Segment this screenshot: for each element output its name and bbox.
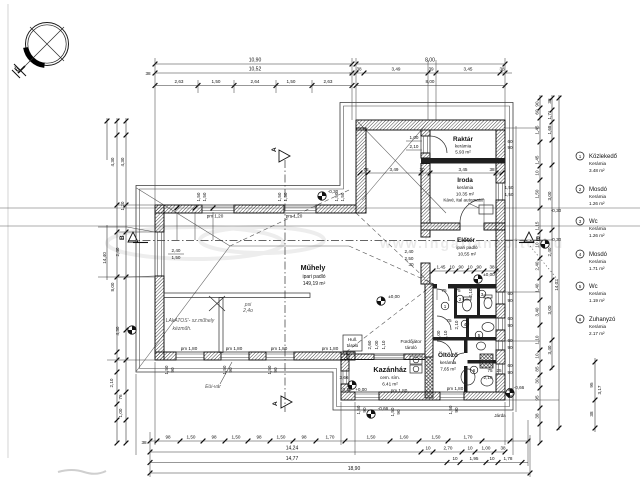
room number 3 wc [478,290,486,298]
svg-text:1,50: 1,50 [283,192,288,201]
svg-text:38: 38 [489,167,495,172]
svg-text:7,65 m²: 7,65 m² [440,367,456,372]
door arc raktar [430,136,447,153]
door arc room2 [437,316,451,330]
svg-text:1,50: 1,50 [267,365,272,374]
door arc bath corridor [437,289,449,301]
svg-text:85: 85 [535,366,540,372]
svg-text:kerámia: kerámia [440,360,457,365]
svg-text:2: 2 [459,297,462,302]
svg-text:1,50: 1,50 [196,192,201,201]
top dimension group left [155,63,352,65]
svg-text:75: 75 [487,368,493,373]
svg-text:8,00: 8,00 [425,58,435,64]
section marker A bottom [272,396,292,408]
roof eaves outline outer [136,103,513,411]
svg-text:pm 1,20: pm 1,20 [207,214,224,219]
svg-text:90: 90 [273,367,278,373]
svg-text:1,50: 1,50 [212,79,221,84]
svg-text:1: 1 [444,304,447,309]
svg-text:0,16: 0,16 [343,387,352,392]
svg-text:90: 90 [228,367,233,373]
legend item 1 Közlekedő [576,152,618,173]
window bath right 1 [496,292,505,304]
svg-text:3,45: 3,45 [464,67,473,72]
svg-text:98: 98 [256,435,262,440]
svg-text:2,40: 2,40 [535,261,540,270]
section marker A top [271,147,290,162]
svg-text:2,10: 2,10 [468,288,473,297]
wall left wing bottom segment 3 [249,352,266,360]
svg-text:Kazánház: Kazánház [373,365,407,374]
svg-text:38: 38 [489,265,495,270]
bottom extension lines [154,362,156,445]
level marker -0,30 right [541,240,549,248]
svg-text:B: B [119,235,126,240]
svg-text:3,49: 3,49 [390,167,399,172]
svg-text:Fürdőjátor: Fürdőjátor [401,339,422,344]
svg-text:1,50: 1,50 [356,405,361,414]
svg-text:2,40: 2,40 [547,247,552,256]
svg-text:kézműh.: kézműh. [173,326,192,332]
section line B-B [128,240,548,242]
svg-text:98: 98 [165,435,171,440]
chimney shaft crosshatch [425,357,433,398]
svg-text:75: 75 [441,288,447,293]
door arc wc5 [453,353,464,364]
svg-text:pm 1,80: pm 1,80 [322,346,339,351]
svg-text:2,10: 2,10 [443,330,448,339]
wall eloter left stub [421,230,430,237]
svg-text:+0,00: +0,00 [355,387,367,392]
wall bath row divider 1 [454,315,496,319]
svg-text:8,00: 8,00 [110,282,115,291]
left 14,40 bracket [98,226,127,228]
wall bath left [425,284,433,357]
svg-text:90: 90 [454,407,459,413]
wall eloter left lower [421,263,430,284]
wall kazanhaz top seg1 [341,354,374,360]
svg-text:90: 90 [507,370,513,375]
svg-text:3,00: 3,00 [547,305,552,314]
legend item 6 Zuhanyzó [576,315,616,336]
svg-text:Mosdó: Mosdó [589,187,608,193]
wall iroda bottom left part [421,223,460,230]
svg-text:±0,00: ±0,00 [388,294,400,299]
svg-text:1,50: 1,50 [505,192,514,197]
svg-text:14,24: 14,24 [286,446,299,452]
roof hip left bottom [137,246,231,371]
svg-text:5: 5 [579,284,582,289]
wall kazanhaz left lower [341,384,349,392]
svg-text:3,49: 3,49 [392,67,401,72]
svg-text:1,50: 1,50 [164,365,169,374]
svg-text:1,20: 1,20 [120,201,125,210]
level marker left wall [128,326,136,334]
toilet room2 [463,299,472,311]
svg-text:3,45: 3,45 [459,167,468,172]
window left wing top 2 [284,205,316,213]
right dimension chain lines [539,95,541,443]
svg-text:pm 1,80: pm 1,80 [181,346,198,351]
annex right wall [219,298,223,353]
leader dotted right of B marker [530,246,558,280]
svg-text:5: 5 [478,333,481,338]
watermark logo oval [107,227,283,259]
svg-text:60: 60 [507,338,513,343]
svg-text:ipari padló: ipari padló [456,245,478,250]
svg-text:2,10: 2,10 [484,375,493,380]
svg-text:1,10: 1,10 [381,340,386,349]
door arc iroda [460,199,484,223]
svg-text:25: 25 [496,368,502,373]
svg-text:10: 10 [425,446,431,451]
level marker -0,66 right bottom [506,389,514,397]
svg-text:149,19 m²: 149,19 m² [303,281,326,287]
wall left wing top segment 2 [234,205,284,213]
door jambs eloter [421,236,430,238]
svg-text:4: 4 [464,322,467,327]
svg-text:pm 1,80: pm 1,80 [447,386,464,391]
roof valley dashed to bath corner [349,246,434,284]
svg-text:1.26 m²: 1.26 m² [589,201,605,206]
door opening kazanhaz south [355,392,379,400]
svg-text:cem. sím.: cem. sím. [380,375,400,380]
svg-text:1,78: 1,78 [504,456,513,461]
automat machine rect [479,205,493,214]
boiler units [410,356,422,364]
wall left wing top segment 1 [155,205,202,213]
svg-text:2,63: 2,63 [175,79,184,84]
hull tarolo box [343,335,362,351]
svg-text:4,30: 4,30 [110,157,115,166]
wall step corner [341,352,355,360]
svg-text:5.93 m²: 5.93 m² [455,150,471,155]
svg-text:90: 90 [535,101,540,107]
section marker B left [119,232,148,243]
svg-text:3,40: 3,40 [535,307,540,316]
svg-text:Raktár: Raktár [453,136,473,143]
svg-text:3,00: 3,00 [547,191,552,200]
svg-text:2.17 m²: 2.17 m² [589,331,605,336]
svg-text:90: 90 [362,407,367,413]
legend item 3 Wc [576,217,607,238]
svg-text:30: 30 [408,262,414,267]
top dimension group right [356,63,505,65]
svg-text:38: 38 [141,440,147,445]
annex cross mark [209,296,225,311]
window bath right 4 [496,364,505,374]
svg-text:1,50: 1,50 [535,189,540,198]
window left wing bottom 3 [266,352,294,360]
svg-text:LAkATOS’- sz.műhely: LAkATOS’- sz.műhely [166,318,215,324]
wall bath row divider 2 [433,337,496,341]
svg-text:kerámia: kerámia [457,185,474,190]
roof diagonal block X2 [362,122,428,200]
svg-text:Wc: Wc [589,219,598,225]
svg-text:60: 60 [507,387,513,392]
svg-text:1,45: 1,45 [535,155,540,164]
svg-text:1,50: 1,50 [432,435,441,440]
svg-text:Kerámia: Kerámia [589,194,607,199]
north compass [12,23,69,79]
svg-text:10: 10 [535,353,540,359]
svg-text:1,10: 1,10 [535,335,540,344]
svg-text:3,17: 3,17 [597,385,602,394]
wall block right at iroda [496,200,505,230]
svg-text:8,00: 8,00 [426,79,435,84]
svg-text:1,50: 1,50 [287,79,296,84]
svg-text:90: 90 [396,409,401,415]
svg-text:Kerámia: Kerámia [589,161,607,166]
svg-text:1,00: 1,00 [410,135,419,140]
wall raktar left lower stub [421,153,430,158]
svg-text:±0,00: ±0,00 [483,272,495,277]
svg-text:Műhely: Műhely [301,263,326,272]
svg-text:10: 10 [489,456,495,461]
right chain at legend bottom [594,358,596,432]
room number 6 zuhanyzo [470,366,478,374]
svg-text:2,40: 2,40 [115,247,120,256]
room number 4 mosdo [461,320,469,328]
bottom dimension row 4 [150,472,530,474]
svg-text:95: 95 [589,382,594,388]
svg-text:10: 10 [535,242,540,248]
window bath right 3 [496,341,505,350]
svg-text:2,40: 2,40 [172,248,181,253]
svg-text:1,50: 1,50 [232,435,241,440]
window left wing bottom 2 [221,352,249,360]
wall left wing bottom segment 2 [204,352,221,360]
svg-text:Öltöző: Öltöző [438,350,458,359]
svg-text:2,10: 2,10 [410,144,419,149]
window iroda right wall [496,183,505,200]
svg-text:1,50: 1,50 [367,435,376,440]
svg-text:-0,66: -0,66 [514,385,525,390]
svg-text:1,15: 1,15 [535,221,540,230]
door opening raktar [421,136,430,153]
svg-text:1,70: 1,70 [464,435,473,440]
svg-text:10: 10 [535,170,540,176]
svg-text:1,50: 1,50 [340,192,345,201]
svg-text:98: 98 [211,435,217,440]
wall divider raktar iroda [421,158,505,164]
radiator shower [480,354,493,368]
room number 1 kozlekedo [441,302,449,310]
svg-text:A: A [272,401,279,406]
svg-text:pm 1,80: pm 1,80 [226,346,243,351]
svg-text:2,4o: 2,4o [242,308,253,314]
svg-text:1,40: 1,40 [535,283,540,292]
svg-text:Kávé, ital automata: Kávé, ital automata [443,198,483,203]
svg-text:38: 38 [145,71,151,76]
svg-text:78: 78 [363,167,369,172]
shower tray [461,369,475,385]
roof valley muhely right [356,213,430,283]
svg-text:Iroda: Iroda [457,177,473,184]
svg-text:-0,66: -0,66 [378,406,389,411]
level marker -0,30 muhely top [318,192,326,200]
svg-text:14,77: 14,77 [286,456,299,462]
svg-text:38: 38 [589,411,594,417]
wall right lower seg1 [496,304,505,318]
svg-text:Zuhanyzó: Zuhanyzó [589,317,616,323]
svg-text:39: 39 [428,67,434,72]
wall iroda left [421,164,430,224]
section line A-A [284,160,286,412]
svg-text:14,40: 14,40 [102,252,107,264]
level marker +-0,00 eloter [474,275,482,283]
wall left wing left upper [155,205,164,232]
svg-text:38: 38 [356,67,362,72]
svg-text:kerámia: kerámia [455,144,472,149]
svg-text:tároló: tároló [347,343,359,348]
svg-text:3,66: 3,66 [340,375,349,380]
svg-text:1,00: 1,00 [118,408,123,417]
svg-text:10: 10 [467,446,473,451]
svg-text:1,50: 1,50 [505,185,514,190]
svg-text:1,45: 1,45 [437,265,446,270]
svg-text:1,50: 1,50 [334,192,339,201]
wall bottom lower seg1 [341,392,355,400]
svg-text:75: 75 [455,288,461,293]
wall iroda bottom right part [484,223,505,230]
svg-text:4,30: 4,30 [115,326,120,335]
svg-text:1,50: 1,50 [448,405,453,414]
svg-text:76: 76 [118,394,123,400]
bottom dimension row 2 [150,451,505,453]
wall kazanhaz top seg2 [404,354,425,360]
svg-text:1.71 m²: 1.71 m² [589,266,605,271]
room number 5 wc [475,331,483,339]
svg-text:98: 98 [301,435,307,440]
svg-text:pm 1,80: pm 1,80 [391,388,408,393]
wall oltozo right lower [464,366,468,392]
svg-text:1,70: 1,70 [326,435,335,440]
svg-text:90: 90 [507,145,513,150]
svg-text:38: 38 [535,413,540,419]
svg-text:60: 60 [507,139,513,144]
svg-text:1: 1 [579,154,582,159]
svg-text:A: A [271,147,278,152]
level marker -0,66 bottom [367,410,375,418]
svg-text:2,10: 2,10 [109,378,114,387]
svg-text:10,55 m²: 10,55 m² [458,252,477,257]
toilet room5 [477,342,486,350]
wall raktar left upper stub [421,130,430,136]
right extension lines [505,127,540,129]
window left wing bottom 1 [176,352,204,360]
svg-text:1,50: 1,50 [172,255,181,260]
window bath right 2 [496,318,505,330]
roof valley dashed to ridge [230,190,349,246]
wall bottom lower seg3 [464,392,505,400]
ridge guide line upper [0,207,640,209]
svg-text:4: 4 [579,252,582,257]
svg-text:1,95: 1,95 [470,456,479,461]
svg-text:1,00: 1,00 [482,446,491,451]
svg-text:1.19 m²: 1.19 m² [589,298,605,303]
faint pencil smudge bottom left [58,470,106,474]
wall eloter bath divider [448,284,496,289]
wall block left [356,128,366,213]
svg-text:Előtér: Előtér [457,237,476,244]
svg-text:Wc: Wc [589,284,598,290]
svg-text:1,45: 1,45 [535,125,540,134]
svg-text:90: 90 [170,367,175,373]
svg-text:-0,30: -0,30 [551,208,562,213]
svg-text:6.41 m²: 6.41 m² [382,382,398,387]
svg-text:90: 90 [507,394,513,399]
wall room2 room3 divider [477,289,480,316]
svg-text:tároló: tároló [405,345,417,350]
svg-text:6: 6 [579,317,582,322]
faint page edge line left [7,4,9,458]
left extension lines to wall [117,204,155,206]
svg-text:1,00: 1,00 [436,330,441,339]
annex workbench top double line [164,293,310,298]
bottom dimension row 1 [150,440,530,442]
wall room4 divider [466,319,469,338]
svg-text:Kerámia: Kerámia [589,291,607,296]
sink room4 [482,323,494,332]
svg-text:6: 6 [473,368,476,373]
svg-text:3: 3 [481,292,484,297]
svg-text:60: 60 [507,291,513,296]
wall kazanhaz left upper [341,354,349,371]
svg-text:90: 90 [458,265,464,270]
window left wing left wall [155,232,164,276]
wall oltozo right upper [464,341,468,354]
wall right lower seg3 [496,350,505,364]
wall bath top tiny [433,284,437,289]
dim row inside eloter [432,270,500,272]
svg-text:1,00: 1,00 [374,340,379,349]
svg-text:pm 1,80: pm 1,80 [271,346,288,351]
wall bottom lower seg2 [379,392,440,400]
level marker kazanhaz [348,381,356,389]
dim row inside block [360,172,502,174]
wall block top [356,120,505,130]
legend item 4 Mosdó [576,250,608,271]
wall left wing bottom segment 4 [294,352,347,360]
svg-text:38: 38 [500,446,506,451]
roof ridge left wing [230,245,349,247]
wall left wing bottom segment 1 [155,352,176,360]
svg-text:90: 90 [507,345,513,350]
roof diagonal block X1 [358,122,446,213]
svg-text:90: 90 [507,298,513,303]
svg-text:2,60: 2,60 [367,340,372,349]
svg-text:30: 30 [535,378,540,384]
svg-text:2,63: 2,63 [324,79,333,84]
section marker B right [519,232,541,243]
svg-text:10,52: 10,52 [249,67,262,73]
svg-text:Kerámia: Kerámia [589,324,607,329]
svg-text:1,50: 1,50 [202,192,207,201]
svg-text:Eüi-vár: Eüi-vár [205,384,221,390]
svg-text:10.35 m²: 10.35 m² [456,192,475,197]
wall wc shower divider [468,360,497,364]
window oltozo south [440,392,464,400]
svg-text:18,90: 18,90 [348,466,361,472]
level marker +-0,00 muhely [377,297,385,305]
svg-text:2,50: 2,50 [405,256,414,261]
left dimension chain lines [116,118,118,443]
svg-text:Kerámia: Kerámia [589,226,607,231]
toilet room3 [484,298,492,309]
svg-text:Hull.: Hull. [348,337,357,342]
